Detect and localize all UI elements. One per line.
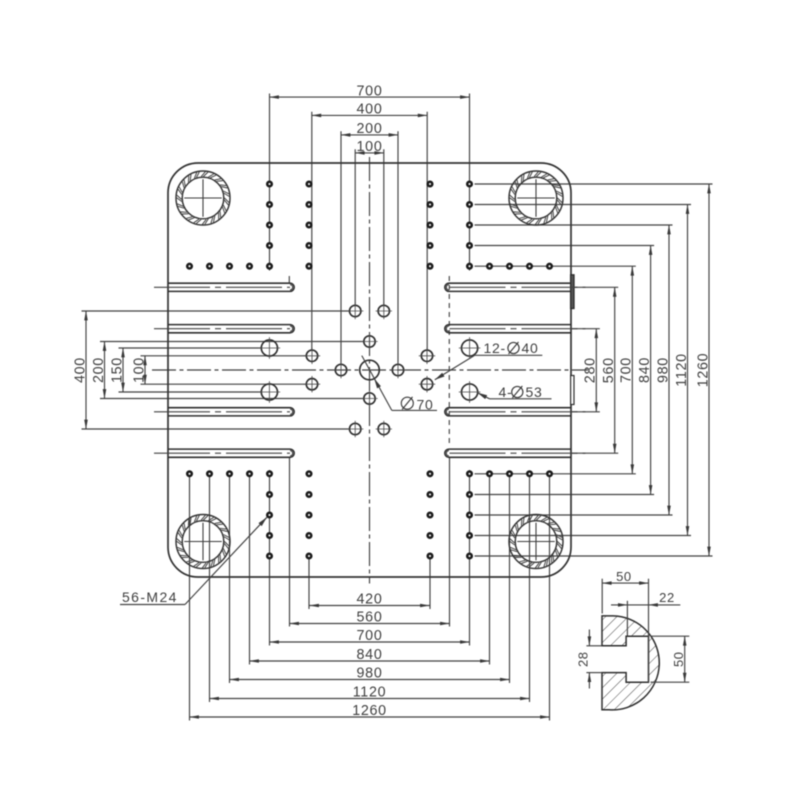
dim 980 right (668, 225, 670, 515)
ext line col x469.5 top (469, 94, 471, 271)
label 12-Ø40 with leader (435, 355, 475, 380)
ext line y494.5 right (475, 494, 655, 496)
detail dim 50 top (601, 579, 603, 614)
ext line x311.5 (400 dim) (311, 112, 313, 350)
svg-text:50: 50 (671, 651, 686, 667)
hole Ø53 #2 (462, 340, 478, 356)
svg-text:100: 100 (131, 357, 147, 383)
svg-text:980: 980 (655, 357, 671, 383)
T-slot right 2 (445, 325, 571, 333)
ext line x355.2 (100 dim) (354, 149, 356, 304)
ext x549.5 bottom (549, 477, 551, 721)
ext line y311 left (82, 310, 350, 312)
svg-text:1120: 1120 (353, 685, 387, 701)
T-slot right 4 (445, 449, 571, 457)
hole Ø53 #3 (261, 384, 277, 400)
ext x529.5 bottom (529, 477, 531, 703)
svg-text:4-: 4- (499, 384, 513, 400)
hole Ø40 #10 (364, 393, 375, 404)
hole Ø53 #1 (261, 340, 277, 356)
detail ext neck top (586, 645, 602, 647)
dim 1260 right (708, 184, 710, 556)
hole Ø40 #4 (306, 350, 317, 361)
detail ext neck bottom (586, 672, 602, 674)
hole Ø40 #5 (421, 350, 432, 361)
dim 400 left (85, 311, 87, 429)
svg-text:53: 53 (526, 384, 543, 400)
tie bar hole top-right (509, 171, 563, 225)
ext x189.5 bottom (189, 477, 191, 721)
svg-text:200: 200 (91, 357, 107, 383)
tie bar hole bottom-right (509, 515, 563, 569)
right edge tab upper (571, 275, 574, 309)
tie bar hole top-left (176, 171, 230, 225)
stub above slot1L (288, 276, 290, 283)
ext x209.5 bottom (209, 477, 211, 703)
T-slot right 3 (445, 408, 571, 416)
tie bar hole bottom-left (176, 515, 230, 569)
hole Ø40 #7 (392, 364, 403, 375)
svg-text:150: 150 (109, 357, 125, 383)
ext line slot1R center (571, 286, 618, 288)
svg-text:700: 700 (357, 628, 383, 644)
dim 100 left (144, 356, 146, 384)
ext line y384.2 left (141, 383, 307, 385)
dim 840 bottom (250, 660, 490, 662)
svg-text:56-M24: 56-M24 (122, 589, 178, 605)
row line y473.8 right (475, 473, 636, 475)
dim 420 bottom (310, 605, 430, 607)
svg-text:40: 40 (522, 340, 539, 356)
T-slot right 1 (445, 283, 571, 291)
ext line y341.5 left (100, 341, 364, 343)
svg-text:560: 560 (357, 610, 383, 626)
ext x509.5 bottom (509, 477, 511, 684)
svg-text:200: 200 (357, 121, 383, 137)
ext col x430 bottom (429, 559, 431, 610)
ext line slot3R center (571, 411, 600, 413)
ext line y556.0 right (475, 555, 713, 557)
ext line y184.0 right (475, 183, 713, 185)
dim 700 top (270, 96, 470, 98)
svg-text:12-: 12- (484, 340, 506, 356)
svg-text:22: 22 (659, 590, 675, 605)
svg-text:280: 280 (583, 357, 599, 383)
svg-text:50: 50 (616, 569, 632, 584)
T-slot left 4 (168, 449, 294, 457)
ext line x427 (400 dim) (426, 112, 428, 350)
svg-text:400: 400 (357, 102, 383, 118)
hole Ø40 #1 (350, 305, 361, 316)
ext col x469.5 bottom (469, 470, 471, 646)
56x M24 bolt holes (267, 182, 272, 187)
dim 560 right (614, 287, 616, 453)
hole Ø40 #3 (364, 336, 375, 347)
dim 280 right (595, 329, 597, 412)
svg-text:840: 840 (357, 647, 383, 663)
dim 560 bottom (290, 623, 450, 625)
label 56-M24 with leader (120, 604, 185, 606)
ext line y355.8 left (141, 355, 307, 357)
detail dim 22 (626, 601, 628, 636)
plate outline (168, 163, 571, 577)
ext line y348 left (119, 347, 262, 349)
svg-text:560: 560 (601, 357, 617, 383)
ext line y392 left (119, 391, 262, 393)
svg-text:700: 700 (357, 83, 383, 99)
svg-text:400: 400 (72, 357, 88, 383)
T-slot left 3 (168, 408, 294, 416)
ext line y225.0 right (475, 224, 673, 226)
ext x229.5 bottom (229, 477, 231, 684)
ext line col x269.5 top (269, 94, 271, 271)
svg-text:70: 70 (417, 396, 434, 412)
dim 1260 bottom (190, 716, 550, 718)
ext line y535.5 right (475, 535, 692, 537)
ext line y204.5 right (475, 204, 692, 206)
ext x249.5 bottom (249, 477, 251, 665)
svg-text:1260: 1260 (352, 703, 387, 719)
ext line x383.8 (100 dim) (383, 149, 385, 304)
ext line slot2R center (571, 328, 600, 330)
svg-text:420: 420 (357, 592, 383, 608)
ext line y515.0 right (475, 514, 673, 516)
hole Ø40 #11 (350, 423, 361, 434)
hole Ø53 #4 (462, 384, 478, 400)
dim 1120 bottom (210, 698, 530, 700)
ext col x269.5 bottom (269, 470, 271, 646)
svg-text:28: 28 (576, 651, 591, 667)
label Ø70 with leader (362, 356, 392, 411)
svg-text:980: 980 (357, 666, 383, 682)
row line y266 right (475, 265, 636, 267)
T-slot left 2 (168, 325, 294, 333)
detail dim 50 right (651, 635, 690, 637)
ext line y245.5 right (475, 245, 655, 247)
ext line y398.5 left (100, 398, 364, 400)
center hole Ø70 (360, 360, 380, 380)
hole Ø40 #8 (306, 379, 317, 390)
dashed line x449.3 (448, 276, 450, 447)
ext slot end left bottom (289, 458, 291, 627)
dim 840 right (650, 246, 652, 495)
dim 400 top (312, 114, 427, 116)
svg-text:700: 700 (619, 357, 635, 383)
dim 700 right (631, 266, 633, 474)
hole Ø40 #2 (378, 305, 389, 316)
T-slot left 1 (168, 283, 294, 291)
dim 150 left (122, 348, 124, 392)
horizontal centerline (152, 369, 588, 371)
vertical centerline (369, 157, 371, 584)
ext line slot4R center (571, 452, 618, 454)
dim 100 top (355, 152, 384, 154)
dim 1120 right (687, 205, 689, 536)
svg-text:1120: 1120 (674, 353, 690, 387)
ext line x341.5 (200 dim) (340, 131, 342, 363)
detail dim 28 (588, 630, 590, 646)
svg-text:1260: 1260 (695, 353, 711, 388)
ext slot end right bottom (449, 458, 451, 627)
hole Ø40 #6 (335, 364, 346, 375)
ext line y429 left (82, 428, 350, 430)
hole Ø40 #9 (421, 379, 432, 390)
svg-text:100: 100 (357, 139, 383, 155)
ext line x397.6 (200 dim) (397, 131, 399, 363)
svg-text:840: 840 (637, 357, 653, 383)
dim 700 bottom (270, 641, 470, 643)
hole Ø40 #12 (378, 423, 389, 434)
ext x489.5 bottom (489, 477, 491, 665)
ext col x309 bottom (308, 559, 310, 610)
dim 200 top (341, 134, 398, 136)
label 4-Ø53 with leader (477, 393, 489, 399)
dim 200 left (104, 342, 106, 399)
dim 980 bottom (230, 679, 510, 681)
right edge tab lower (571, 376, 574, 405)
